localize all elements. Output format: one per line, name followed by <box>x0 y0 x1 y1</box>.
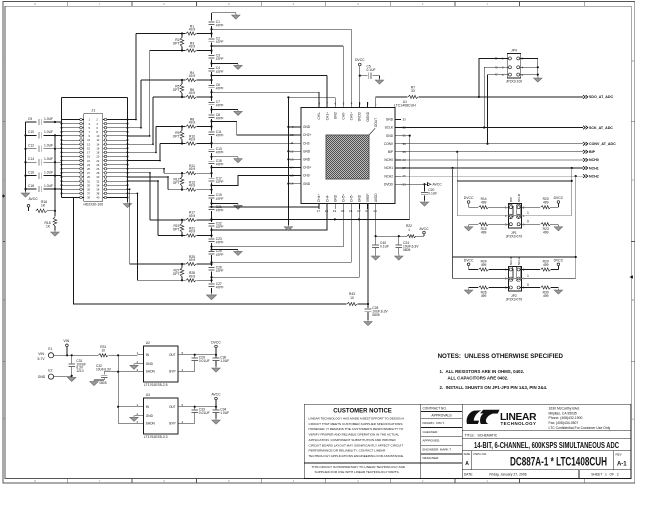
capacitor C20 0.1UF <box>424 184 426 192</box>
regulator U2 LT1761ES5-2.5 <box>144 346 179 382</box>
svg-text:49.9: 49.9 <box>189 274 196 278</box>
svg-text:OVDD: OVDD <box>358 111 362 121</box>
resistor R43 10 <box>347 302 357 305</box>
svg-text:GND: GND <box>303 149 311 153</box>
svg-text:1.0UF: 1.0UF <box>44 170 53 174</box>
ground below C34 <box>212 420 220 424</box>
svg-text:C18: C18 <box>28 184 34 188</box>
capacitor C33 0.01UF <box>194 407 196 410</box>
svg-text:NCH0: NCH0 <box>589 158 599 162</box>
capacitor C29 0.01UF <box>194 355 196 358</box>
svg-text:LTC1408CUH: LTC1408CUH <box>394 104 416 108</box>
svg-text:APPROVED:: APPROVED: <box>423 439 441 443</box>
capacitor C4 47PF <box>208 67 214 72</box>
resistor R2 OPT (vertical) <box>181 34 183 38</box>
resistor R13 49.9 <box>168 189 186 191</box>
ground below C31 <box>68 377 76 381</box>
capacitor C26 47PF <box>208 266 214 271</box>
ground U2 GND pin <box>134 363 138 365</box>
resistor R23 499 <box>520 223 540 225</box>
svg-text:49.9: 49.9 <box>189 184 196 188</box>
resistor R31 10 <box>98 354 108 357</box>
resistor R7 33 <box>408 95 418 98</box>
wire JP4 D to SDO <box>479 58 509 97</box>
svg-text:DVCC: DVCC <box>355 58 365 62</box>
wire RC ladder vertical bus <box>211 13 213 293</box>
wire top GND bus <box>288 96 335 98</box>
U1 bottom pins 17-24 <box>317 193 378 213</box>
svg-text:VIN: VIN <box>38 352 44 356</box>
svg-text:SHEET 1 OF 2: SHEET 1 OF 2 <box>591 473 619 477</box>
power DVCC right of JP1 <box>557 205 559 207</box>
svg-text:DATE:: DATE: <box>464 473 473 477</box>
svg-text:TECHNOLOGY: TECHNOLOGY <box>501 421 537 426</box>
svg-text:1: 1 <box>527 211 529 215</box>
wire IC left GND bus <box>287 97 289 225</box>
wire U2 OUT to DVCC <box>184 354 216 356</box>
svg-text:47PF: 47PF <box>216 241 224 245</box>
wire CH0+ tap to IC pin4 <box>212 28 352 30</box>
svg-text:1: 1 <box>408 228 410 232</box>
svg-text:20: 20 <box>341 209 345 213</box>
svg-text:OGND: OGND <box>366 111 370 121</box>
svg-text:49.9: 49.9 <box>189 121 196 125</box>
wire R31 node down to U3 <box>117 355 119 406</box>
svg-text:5-7V: 5-7V <box>38 357 46 361</box>
capacitor C3 47PF <box>208 54 214 59</box>
svg-text:24: 24 <box>373 209 377 213</box>
wire J1 left bus <box>61 98 63 198</box>
svg-text:0.1UF: 0.1UF <box>380 245 389 249</box>
wire J1 right bus <box>127 98 129 203</box>
svg-text:DVCC: DVCC <box>554 196 564 200</box>
resistor R17 49.9 <box>150 219 186 221</box>
wire NCH2 line <box>401 175 583 177</box>
svg-text:0.01UF: 0.01UF <box>199 359 210 363</box>
customer notice box <box>420 404 422 478</box>
svg-text:OPT: OPT <box>173 272 180 276</box>
svg-text:DVCC: DVCC <box>464 258 474 262</box>
wire SCLK line <box>401 127 583 129</box>
resistor R22 1 <box>407 235 416 238</box>
svg-text:0.1UF: 0.1UF <box>428 192 437 196</box>
svg-text:23: 23 <box>365 209 369 213</box>
svg-text:49.9: 49.9 <box>189 45 196 49</box>
svg-text:CH3-: CH3- <box>303 174 310 178</box>
svg-text:AVCC: AVCC <box>419 227 429 231</box>
svg-text:NCH1: NCH1 <box>509 257 513 265</box>
svg-text:U3: U3 <box>146 393 150 397</box>
svg-text:33: 33 <box>411 89 415 93</box>
svg-text:VERIFY PROPER AND RELIABLE OPE: VERIFY PROPER AND RELIABLE OPERATION IN … <box>309 433 400 437</box>
svg-text:REV: REV <box>616 453 622 457</box>
wire JP4 C to CONV <box>488 75 509 144</box>
title block outline <box>304 404 631 478</box>
svg-text:E1: E1 <box>48 347 52 351</box>
svg-text:AVCC: AVCC <box>433 183 443 187</box>
ground right of JP2 <box>554 290 562 294</box>
wire J1 area down to R43 line <box>62 198 347 305</box>
capacitor C8 47PF <box>208 114 214 119</box>
svg-text:SDO_AT_ADC: SDO_AT_ADC <box>589 95 613 99</box>
wire JP4 S to SCK <box>484 67 508 127</box>
svg-text:47PF: 47PF <box>216 116 224 120</box>
resistor R16 1K <box>28 207 30 211</box>
svg-text:49.9: 49.9 <box>189 214 196 218</box>
connector J1 pins <box>61 118 129 200</box>
svg-text:NCH2: NCH2 <box>384 174 393 178</box>
resistor R18 1K <box>54 211 56 217</box>
svg-text:CH1+: CH1+ <box>325 112 329 120</box>
jumper JP1 box <box>509 204 522 229</box>
svg-text:CIRCUIT THAT MEETS CUSTOMER-SU: CIRCUIT THAT MEETS CUSTOMER-SUPPLIED SPE… <box>309 422 404 426</box>
capacitor C16 1.0UF <box>26 175 37 177</box>
wire GND bus to IC bottom pins 19,22,31 <box>212 218 410 220</box>
svg-text:14: 14 <box>290 166 294 170</box>
resistor R9 OPT (vertical) <box>181 127 183 131</box>
capacitor C1 47PF <box>208 21 214 26</box>
svg-text:GND: GND <box>146 362 154 366</box>
svg-text:49.9: 49.9 <box>189 91 196 95</box>
wire IC left GND pins to bus <box>288 126 295 128</box>
svg-text:SCLK: SCLK <box>385 126 394 130</box>
resistor R26 499 <box>464 290 472 294</box>
svg-text:10: 10 <box>101 349 105 353</box>
svg-text:499: 499 <box>543 294 549 298</box>
svg-text:47PF: 47PF <box>216 163 224 167</box>
svg-text:18: 18 <box>325 209 329 213</box>
jumper JP2 shunt bars <box>509 267 513 282</box>
svg-text:A: A <box>3 417 5 421</box>
resistor R25 49.9 <box>130 263 186 265</box>
svg-text:1210: 1210 <box>76 369 83 373</box>
svg-text:10: 10 <box>290 133 294 137</box>
wire CH2- tap to IC pin11 <box>212 142 302 144</box>
svg-text:0805: 0805 <box>100 381 107 385</box>
svg-text:VREF: VREF <box>366 193 370 202</box>
capacitor C31 100UF 6.3V 1210 <box>71 355 73 363</box>
svg-text:AVDD: AVDD <box>374 193 378 202</box>
svg-text:ENGINEER: MARK T.: ENGINEER: MARK T. <box>423 447 452 451</box>
svg-text:OUT: OUT <box>169 405 176 409</box>
svg-text:LT1761ES5-2.5: LT1761ES5-2.5 <box>144 383 168 387</box>
svg-text:SIZE: SIZE <box>464 452 471 456</box>
wire AVDD row <box>376 235 407 237</box>
svg-text:0805: 0805 <box>403 248 411 252</box>
ground right of C5 <box>379 76 381 79</box>
resistor R8 49.9 <box>156 126 186 128</box>
net CONV_AT_ADC <box>583 142 588 146</box>
svg-text:49.9: 49.9 <box>189 258 196 262</box>
svg-text:2. INSTALL SHUNTS ON JP1-JP3: 2. INSTALL SHUNTS ON JP1-JP3 PIN 1&3, PI… <box>440 385 548 390</box>
svg-text:NCH0: NCH0 <box>384 158 393 162</box>
op-amp U1 LTC1408CUH body <box>301 108 395 204</box>
svg-text:B: B <box>3 298 5 302</box>
svg-text:DOUT: DOUT <box>374 118 378 127</box>
svg-text:DWG NO.: DWG NO. <box>474 452 488 456</box>
svg-text:C10: C10 <box>28 130 34 134</box>
svg-text:47PF: 47PF <box>216 87 224 91</box>
ground below C32 <box>94 379 104 381</box>
wire CH1- tap to IC pin8 <box>212 91 319 93</box>
capacitor C10 1.0UF <box>26 134 37 136</box>
wire RC bus top to ground <box>212 12 232 14</box>
svg-text:0: 0 <box>527 220 529 224</box>
capacitor C21 47PF <box>208 206 214 211</box>
net SCK_AT_ADC <box>583 126 588 130</box>
resistor R20 499 <box>520 206 540 208</box>
ground below C30 <box>212 368 220 372</box>
resistor R14 499 <box>479 206 489 209</box>
capacitor C7 47PF <box>208 101 214 106</box>
wire CH3+ tap to IC pin14 <box>212 166 302 168</box>
svg-text:10UF,6.3V: 10UF,6.3V <box>96 367 112 371</box>
svg-text:22: 22 <box>357 209 361 213</box>
svg-text:DC887A-1 * LTC1408CUH: DC887A-1 * LTC1408CUH <box>510 454 607 468</box>
resistor R24 499 <box>479 268 489 271</box>
svg-text:47PF: 47PF <box>216 286 224 290</box>
wire from R21 to J1 <box>157 181 159 235</box>
svg-text:CH4-: CH4- <box>325 195 329 202</box>
svg-text:0.01UF: 0.01UF <box>199 411 210 415</box>
svg-text:TITLE: SCHEMATIC: TITLE: SCHEMATIC <box>465 434 498 438</box>
capacitor C22 47PF <box>208 222 214 227</box>
power AVCC right of R22 <box>416 235 424 237</box>
svg-text:LT1761ES5-3.3: LT1761ES5-3.3 <box>144 435 168 439</box>
svg-text:GND: GND <box>333 111 337 119</box>
wire from R8 to J1 <box>155 127 157 153</box>
ground right of JP4 <box>534 78 542 82</box>
ground U3 GND pin <box>134 415 138 417</box>
ground below C9-C18 bus <box>21 193 29 197</box>
svg-text:OPT: OPT <box>173 135 180 139</box>
ground below C20 <box>420 202 428 206</box>
resistor R5 OPT (vertical) <box>181 80 183 84</box>
svg-text:C16: C16 <box>28 170 34 174</box>
wire BIP line <box>401 151 583 153</box>
resistor R6 49.9 <box>153 96 186 98</box>
jumper JP2 box <box>509 267 522 292</box>
svg-text:BIP: BIP <box>589 150 596 154</box>
capacitor C18 1.0UF <box>26 188 37 190</box>
svg-text:CHECKED:: CHECKED: <box>423 430 439 434</box>
svg-text:ALL CAPACITORS ARE 0402.: ALL CAPACITORS ARE 0402. <box>448 376 509 381</box>
capacitor C17 47PF <box>208 177 214 182</box>
U3 pin stubs <box>138 406 144 408</box>
svg-text:NCH0: NCH0 <box>517 194 521 202</box>
svg-text:JP2X3-079: JP2X3-079 <box>506 235 522 239</box>
svg-text:A: A <box>465 461 469 467</box>
svg-text:A: A <box>632 417 634 421</box>
svg-text:47PF: 47PF <box>216 104 224 108</box>
wire GND bus left of C9-C18 <box>25 122 27 192</box>
svg-text:CH1-: CH1- <box>317 112 321 119</box>
svg-text:Phone: (408)432-1900: Phone: (408)432-1900 <box>549 416 583 420</box>
capacitor C5 0.1UF <box>360 75 368 77</box>
net NCH1 <box>583 166 588 170</box>
size / dwg no / rev row <box>471 451 473 470</box>
wire CH3- tap jog to IC pin15 <box>212 176 302 186</box>
capacitor C12 1.0UF <box>26 148 37 150</box>
svg-text:47PF: 47PF <box>216 151 224 155</box>
svg-text:TECHNOLOGY APPLICATIONS ENGINE: TECHNOLOGY APPLICATIONS ENGINEERING FOR … <box>309 454 405 458</box>
approvals column <box>421 404 463 478</box>
svg-text:47PF: 47PF <box>216 40 224 44</box>
wire R43 to IC pin23 VREF <box>367 204 369 305</box>
svg-text:47PF: 47PF <box>216 57 224 61</box>
ground below C40 <box>371 256 379 260</box>
resistor R11 49.9 <box>164 172 186 174</box>
svg-text:49.9: 49.9 <box>189 167 196 171</box>
svg-text:CH4+: CH4+ <box>317 194 321 202</box>
svg-text:U2: U2 <box>146 341 150 345</box>
svg-text:CH2+: CH2+ <box>303 133 311 137</box>
svg-text:1.0UF: 1.0UF <box>44 130 53 134</box>
ground bottom of RC bus <box>206 295 216 300</box>
svg-text:BIP: BIP <box>509 197 513 202</box>
jumper JP1 shunt bars <box>509 204 513 218</box>
wire from R10 to J1 <box>159 144 161 161</box>
svg-text:JP2X3-079: JP2X3-079 <box>506 298 522 302</box>
svg-text:33: 33 <box>403 118 407 122</box>
svg-text:499: 499 <box>481 231 487 235</box>
wire DOUT to R7 <box>376 97 408 102</box>
U2 pin stubs <box>138 354 144 356</box>
svg-text:BYP: BYP <box>169 370 175 374</box>
wire CH0- tap to IC pin5 <box>212 45 344 47</box>
resistor R10 49.9 <box>160 143 186 145</box>
svg-text:49.9: 49.9 <box>189 230 196 234</box>
svg-text:0.1UF: 0.1UF <box>367 68 376 72</box>
svg-text:SCK_AT_ADC: SCK_AT_ADC <box>589 126 613 130</box>
svg-text:NCH1: NCH1 <box>384 166 393 170</box>
svg-text:NOTES: UNLESS OTHERWISE SPECI: NOTES: UNLESS OTHERWISE SPECIFIED <box>438 353 564 360</box>
wire CH5+ tap to IC pin20 <box>212 204 344 247</box>
svg-text:THIS CIRCUIT IS PROPRIETARY TO: THIS CIRCUIT IS PROPRIETARY TO LINEAR TE… <box>312 465 406 469</box>
U1 left pins 9-16 <box>290 125 311 186</box>
resistor R1 49.9 <box>136 33 186 35</box>
svg-text:10: 10 <box>350 296 354 300</box>
capacitor C23 47PF <box>208 238 214 243</box>
svg-text:CH2-: CH2- <box>303 141 310 145</box>
svg-text:CH5+: CH5+ <box>342 194 346 202</box>
svg-text:1.0UF: 1.0UF <box>220 411 229 415</box>
wire CONV line <box>401 143 583 145</box>
svg-text:SUPPLIED FOR USE WITH LINEAR T: SUPPLIED FOR USE WITH LINEAR TECHNOLOGY … <box>315 470 400 474</box>
svg-text:NCH1: NCH1 <box>589 166 599 170</box>
wire IC pin24 AVDD down <box>375 209 377 236</box>
ground below R18 <box>51 232 59 236</box>
capacitor C13 47PF <box>208 148 214 153</box>
svg-text:Milpitas, CA 95035: Milpitas, CA 95035 <box>549 411 577 415</box>
ground near C15 <box>212 156 239 158</box>
resistor R19 OPT (vertical) <box>181 220 183 223</box>
wire from R4 to J1 <box>140 80 142 128</box>
svg-text:GND: GND <box>38 375 46 379</box>
svg-text:GND: GND <box>358 194 362 202</box>
ground near C21 <box>212 202 239 204</box>
svg-text:1.0UF: 1.0UF <box>44 117 53 121</box>
svg-text:E2: E2 <box>48 369 52 373</box>
svg-text:1: 1 <box>527 274 529 278</box>
capacitor C9 1.0UF <box>26 121 37 123</box>
wire from R1 to J1 <box>135 34 137 120</box>
resistor R28 49.9 <box>137 279 185 281</box>
wire from R17 to J1 <box>149 173 151 220</box>
U1 right pins 25-33 <box>384 118 406 187</box>
ground near C4 <box>212 63 239 65</box>
svg-text:499: 499 <box>481 201 487 205</box>
capacitor C14 1.0UF <box>26 161 37 163</box>
capacitor C2 47PF <box>208 37 214 42</box>
ground IC left bus <box>284 227 292 231</box>
svg-text:DESIGNER:: DESIGNER: <box>423 456 440 460</box>
svg-text:APPLICATION. COMPONENT SUBSTIT: APPLICATION. COMPONENT SUBSTITUTION AND … <box>309 438 397 442</box>
svg-text:GND: GND <box>386 118 394 122</box>
capacitor C27 47PF <box>208 283 214 288</box>
svg-text:BYP: BYP <box>169 422 175 426</box>
resistor R29 499 <box>520 269 540 271</box>
wire DVCC to IC pin3 OVDD <box>359 68 361 102</box>
wire JP2 row2 through box <box>509 278 520 280</box>
wire JP2 pin3 net <box>453 278 510 280</box>
wire from R11 to J1 <box>163 169 165 173</box>
svg-text:OPT: OPT <box>173 88 180 92</box>
capacitor C24 10UF 6.3V <box>398 236 400 244</box>
capacitor C11 47PF <box>208 131 214 136</box>
wire JP2 top loop <box>453 256 576 258</box>
svg-text:DRAWN: KIM T.: DRAWN: KIM T. <box>423 421 445 425</box>
svg-text:1.0UF: 1.0UF <box>44 157 53 161</box>
jumper JP2 pins <box>505 268 525 290</box>
svg-text:14-BIT, 6-CHANNEL, 600KSPS SIM: 14-BIT, 6-CHANNEL, 600KSPS SIMULTANEOUS … <box>474 441 619 450</box>
svg-text:CH0+: CH0+ <box>350 112 354 120</box>
svg-text:CONTRACT NO.: CONTRACT NO. <box>423 407 447 411</box>
svg-text:1.0UF: 1.0UF <box>44 184 53 188</box>
svg-text:DVDD: DVDD <box>384 182 394 186</box>
svg-text:49.9: 49.9 <box>189 28 196 32</box>
svg-text:GND: GND <box>333 194 337 202</box>
svg-text:LINEAR TECHNOLOGY HAS MADE A B: LINEAR TECHNOLOGY HAS MADE A BEST EFFORT… <box>309 417 406 421</box>
svg-text:C9: C9 <box>28 117 32 121</box>
svg-text:A-1: A-1 <box>617 462 627 468</box>
svg-text:DVCC: DVCC <box>211 341 221 345</box>
svg-text:LTC Confidential-For Customer: LTC Confidential-For Customer Use Only <box>549 426 611 430</box>
border mid tick right <box>630 275 633 278</box>
svg-text:499: 499 <box>481 263 487 267</box>
svg-text:499: 499 <box>543 231 549 235</box>
wire from R6 to J1 <box>152 97 154 144</box>
svg-text:GND: GND <box>386 134 394 138</box>
wire from R13 to J1 <box>167 177 169 190</box>
wire SHDN row U2 <box>104 371 137 373</box>
svg-text:HD2X20-100: HD2X20-100 <box>83 203 103 207</box>
ground below J1 right bus <box>123 204 131 208</box>
svg-text:1. ALL RESISTORS ARE IN OHMS,: 1. ALL RESISTORS ARE IN OHMS, 0402. <box>440 369 525 374</box>
wire IC pin25 to AVCC <box>401 183 425 185</box>
svg-text:47PF: 47PF <box>216 23 224 27</box>
svg-text:49.9: 49.9 <box>189 74 196 78</box>
wire NCH1 line <box>401 167 583 169</box>
svg-text:OPT: OPT <box>173 181 180 185</box>
svg-text:PERFORMANCE OR RELIABILITY. CO: PERFORMANCE OR RELIABILITY. CONTACT LINE… <box>309 449 387 453</box>
svg-text:47PF: 47PF <box>216 253 224 257</box>
svg-text:49.9: 49.9 <box>189 138 196 142</box>
svg-text:17: 17 <box>317 209 321 213</box>
svg-text:GND: GND <box>146 414 154 418</box>
jumper JP1 pins <box>505 205 525 226</box>
wire CH1+ tap to IC pin7 <box>212 75 328 77</box>
